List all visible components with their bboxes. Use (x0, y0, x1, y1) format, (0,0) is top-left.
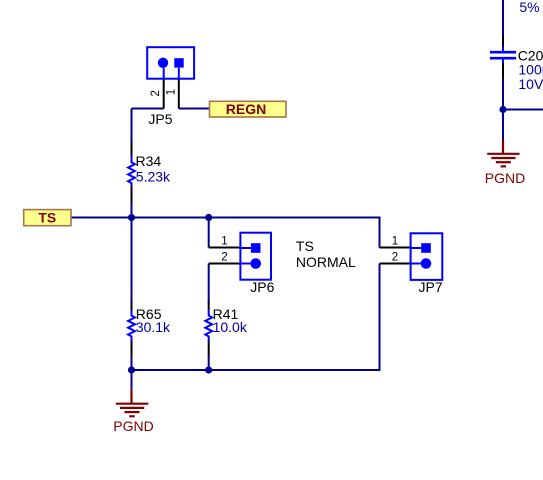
svg-text:NORMAL: NORMAL (296, 254, 356, 270)
svg-text:REGN: REGN (226, 101, 266, 117)
svg-text:2: 2 (150, 90, 162, 96)
svg-text:2: 2 (392, 252, 398, 264)
svg-text:10.0k: 10.0k (213, 319, 248, 335)
svg-text:JP7: JP7 (419, 279, 443, 295)
svg-text:2: 2 (221, 252, 227, 264)
svg-text:JP5: JP5 (148, 111, 172, 127)
svg-text:PGND: PGND (113, 418, 153, 434)
svg-text:TS: TS (296, 238, 314, 254)
svg-text:1: 1 (166, 89, 178, 95)
svg-text:R34: R34 (136, 153, 162, 169)
svg-text:5.23k: 5.23k (136, 169, 171, 185)
svg-text:1: 1 (392, 236, 398, 248)
svg-text:TS: TS (38, 210, 56, 226)
svg-text:5%: 5% (519, 0, 539, 15)
svg-text:10V: 10V (518, 76, 543, 92)
svg-text:PGND: PGND (485, 170, 525, 186)
svg-text:1: 1 (221, 236, 227, 248)
svg-text:JP6: JP6 (250, 279, 274, 295)
svg-text:30.1k: 30.1k (136, 319, 171, 335)
